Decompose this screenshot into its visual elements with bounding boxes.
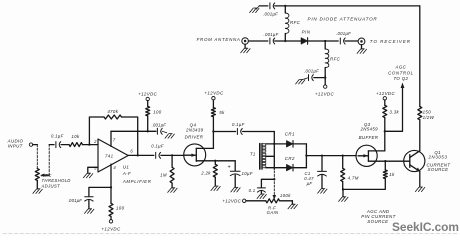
wire (top rail) [275,5,420,7]
capacitor .001uF (antenna coupling) [264,32,279,44]
ground (supply bypass) [162,131,174,138]
svg-text:.001µF: .001µF [336,31,351,36]
wire [293,143,306,145]
diode PIN [301,30,311,45]
node (pin 4 node) [110,186,112,188]
node (PIN / RFC2) [324,40,326,42]
wire [161,154,184,156]
label AGC CONTROL TO Q2 [388,65,414,82]
wire [213,131,235,133]
svg-text:2N3439: 2N3439 [185,128,204,133]
svg-text:TO RECEIVER: TO RECEIVER [370,39,411,44]
node (RFC2 / bypass) [324,76,326,78]
wire (Q4 collector riser) [212,132,214,149]
capacitor 0.1uF (T1 drive) [232,122,245,135]
node (drive / CR1) [273,143,275,145]
label AGC THRESHOLD ADJUST [41,173,71,188]
wire [342,189,344,196]
svg-text:+12VDC: +12VDC [138,91,158,96]
svg-text:FROM ANTENNA: FROM ANTENNA [197,37,241,42]
svg-text:1M: 1M [160,173,167,178]
svg-text:µF: µF [307,181,313,186]
diode CR1 [274,132,295,148]
label AUDIO INPUT [7,139,24,149]
transformer T1 winding [250,144,266,168]
capacitor .001uF (top bypass) [263,3,278,16]
svg-text:CR2: CR2 [285,156,295,161]
svg-text:TO Q2: TO Q2 [393,76,408,81]
terminal +12VDC (RF gain) [222,199,246,204]
node (rectifier output) [305,154,307,156]
node (Q4 collector) [212,130,214,132]
svg-text:.001µF: .001µF [264,32,279,37]
ground (receiver connector) [357,45,366,54]
capacitor 0.1uF (tap bypass) [249,179,275,194]
wire (Q1 emitter) [419,171,421,187]
wire (to pin 2) [83,144,99,146]
label TO RECEIVER [370,39,411,44]
transformer T1 core [260,143,263,169]
svg-text:+: + [227,165,230,171]
svg-text:.001µF: .001µF [263,11,278,16]
transistor Q1 2N3053 [404,150,425,171]
wire [275,40,301,42]
wire [345,40,358,42]
ground (AGC pot) [33,189,42,194]
svg-text:+12VDC: +12VDC [204,91,224,96]
watermark SeekIC.com [392,220,459,234]
capacitor 0.1uF (input) [51,134,64,148]
svg-text:4.7M: 4.7M [348,175,359,180]
svg-text:SOURCE: SOURCE [367,219,388,224]
svg-text:SeekIC.com: SeekIC.com [392,220,459,234]
label Q1 2N3053 CURRENT SOURCE [426,150,450,172]
svg-text:.001µF: .001µF [152,123,167,128]
svg-text:5k: 5k [219,110,225,115]
ground (RF gain pot) [288,204,297,209]
wire [248,40,267,42]
svg-text:3.3k: 3.3k [389,109,399,114]
ground (tap bypass) [257,194,266,199]
arrow (pot wiper) [273,195,277,200]
wire [61,144,69,146]
capacitor 0.1uF (output coupling) [151,144,164,159]
wire (top rail left) [259,5,268,7]
svg-text:AGC: AGC [395,65,407,70]
node (V+ node) [147,130,149,132]
wire (T1 bottom lead) [266,167,275,169]
capacitor .001uF (PIN bias bypass) [304,69,319,81]
wiper (AGC pot) [40,174,49,177]
node (Q3 source / Q1 base) [384,160,386,162]
wire (dashed drop to pot) [36,145,38,169]
ground (pin 3) [83,173,92,178]
node (output / feedback) [137,154,139,156]
arrow (AGC control) [401,83,405,89]
transistor Q3 2N5459 buffer [356,145,385,166]
ground (Q1 emitter) [415,187,424,192]
ground (antenna connector) [241,44,250,53]
label AGC AND PIN CURRENT SOURCE [361,209,395,224]
wire (pin 3 to ground) [88,167,98,173]
resistor 470k feedback [89,109,137,155]
ground (10uF) [231,187,240,192]
svg-text:2N3053: 2N3053 [428,154,448,159]
terminal +12VDC (Q3 drain) [376,91,396,106]
wire [291,201,293,204]
wire (AGC takeoff) [385,86,403,132]
wire (pin 7 supply) [111,131,148,146]
resistor 10k [69,134,83,147]
wire (drive drop) [273,132,275,170]
terminal audio input [29,143,32,146]
resistor 100 (supply) [146,106,162,131]
wire [49,144,54,146]
resistor 3.3k [383,105,400,117]
svg-text:0.1: 0.1 [249,188,256,193]
node (bypass tap) [273,178,275,180]
node (inverting input) [88,143,90,145]
ground (C1) [318,189,327,194]
wire [243,131,275,133]
resistor 4.7M [341,156,359,190]
terminal +12VDC (PIN bias) [315,80,335,97]
wire (right feed drop) [419,6,421,107]
node (1M bias) [171,154,173,156]
svg-text:470k: 470k [107,109,118,114]
label PIN DIODE ATTENUATOR [308,17,378,22]
svg-text:ADJUST: ADJUST [41,183,61,188]
wire (T1 center tap) [266,155,275,157]
node (4.7M) [342,154,344,156]
ground (2.2k) [211,186,220,191]
capacitor .001uF (supply bypass) [148,123,166,135]
svg-text:2.2k: 2.2k [200,170,211,175]
resistor 1M [160,155,174,187]
label U1 A-F AMPLIFIER [122,165,152,184]
capacitor .001uF (pin4 bypass) [68,187,111,208]
wire (to Q1 collector) [419,120,421,151]
node (C1) [321,154,323,156]
svg-text:741: 741 [105,153,114,158]
wire [324,76,326,80]
terminal +12VDC (Q4) [204,91,224,108]
label Q4 2N3439 DRIVER [185,123,204,140]
transistor Q4 2N3439 driver [184,144,236,166]
resistor 5k [211,108,225,132]
ground (1M) [168,188,177,193]
capacitor 10uF (emitter bypass) [227,161,252,188]
svg-text:A-F: A-F [122,171,131,176]
op-amp U1 741 [93,138,133,172]
svg-text:SOURCE: SOURCE [428,167,449,172]
wire (tap dashed to pot wiper) [273,171,275,195]
svg-text:.001µF: .001µF [68,198,83,203]
svg-text:0.1µF: 0.1µF [151,144,164,149]
wire [293,167,306,169]
wire (Q1 base) [385,160,410,162]
svg-text:0.1µF: 0.1µF [232,122,245,127]
svg-text:PIN: PIN [302,30,311,35]
label R-F GAIN [267,205,279,215]
svg-text:100: 100 [116,206,125,211]
terminal +12VDC (op-amp) [138,91,158,106]
svg-text:U1: U1 [123,165,130,170]
terminal +12VDC (pin 4) [101,216,121,231]
svg-text:1k: 1k [389,172,395,177]
svg-text:AMPLIFIER: AMPLIFIER [122,179,152,184]
wire [33,144,38,146]
svg-text:+12VDC: +12VDC [222,199,241,204]
potentiometer 100k R-F GAIN [266,193,291,203]
node (RFC1 / main line) [284,40,286,42]
inductor RFC2 [325,41,340,76]
node (AGC tap) [384,130,386,132]
wire (dashed wiper riser) [48,145,50,176]
svg-text:GAIN: GAIN [267,210,279,215]
wire (Q3 drain feed) [384,118,386,151]
svg-text:INPUT: INPUT [8,144,23,149]
ground (pin4 bypass) [85,209,94,214]
svg-text:+12VDC: +12VDC [315,92,335,97]
svg-text:+12VDC: +12VDC [101,226,121,231]
svg-text:100: 100 [153,110,162,115]
wire (output) [128,154,154,156]
label Q3 2N5459 BUFFER [359,122,379,140]
svg-text:+12VDC: +12VDC [376,91,396,96]
capacitor .001uF (receiver coupling) [336,31,351,44]
connector J1 from antenna [242,38,249,45]
svg-text:CONTROL: CONTROL [388,70,414,75]
inductor RFC1 [285,6,300,41]
wire (rectifier output bar) [305,144,307,168]
ground (4.7M) [339,197,348,202]
svg-text:CR1: CR1 [285,132,295,137]
node (Q4 emitter / 2.2k) [214,160,216,162]
resistor 1k [383,161,395,178]
wire [246,200,266,202]
svg-text:2N5459: 2N5459 [359,127,378,132]
wire (detector line) [306,155,356,157]
svg-text:BUFFER: BUFFER [359,135,379,140]
svg-text:0.1µF: 0.1µF [51,134,64,139]
wire [280,200,293,202]
ground (top-left bypass cap) [250,6,260,13]
label FROM ANTENNA [197,37,241,42]
wire (1k to ground rail) [343,179,385,190]
svg-text:RFC: RFC [290,20,301,25]
resistor 2.2k [200,161,217,186]
resistor 100 (pin 4) [109,187,125,216]
wire (T1 top lead) [266,143,275,145]
svg-text:RFC: RFC [330,56,341,61]
scan artifact line [3,233,457,235]
resistor 150 1/2W [418,107,435,120]
connector J2 to receiver [358,38,365,45]
svg-text:10k: 10k [71,134,80,139]
wire (pin 4 drop) [110,164,112,187]
capacitor C1 0.47uF [304,156,326,189]
diode CR2 [274,156,295,171]
svg-text:DRIVER: DRIVER [185,134,204,139]
svg-text:T1: T1 [250,152,256,157]
node (ground rail) [342,188,344,190]
wire [314,77,325,79]
svg-text:100k: 100k [280,193,291,198]
wire [308,40,338,42]
node (top rail / RFC1) [284,5,286,7]
svg-text:10µF: 10µF [242,171,253,176]
svg-text:.001µF: .001µF [304,69,319,74]
svg-text:1/2W: 1/2W [423,115,435,120]
ground (PIN bias bypass) [296,78,309,84]
potentiometer AGC threshold [35,169,39,189]
svg-text:PIN DIODE ATTENUATOR: PIN DIODE ATTENUATOR [308,17,378,22]
